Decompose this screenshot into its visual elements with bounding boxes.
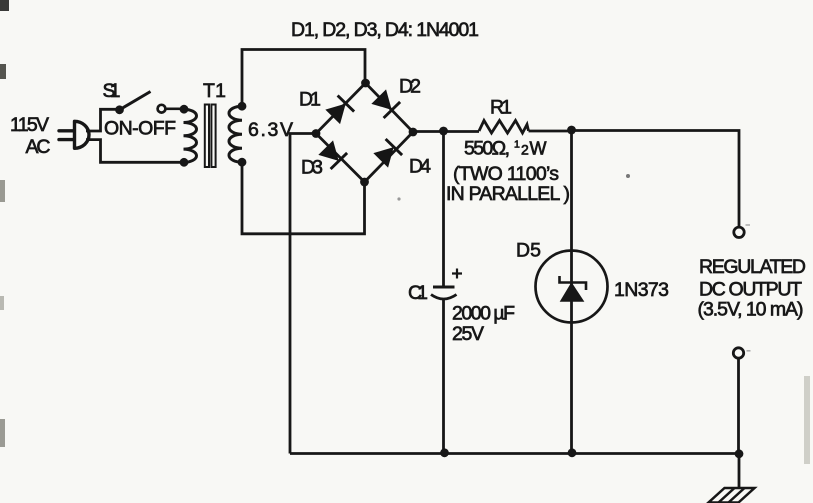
wire C1 top lead (442, 131, 445, 287)
wire bridge left node to ground rail (290, 134, 316, 454)
label R1 value 550 ohm 1/2 W, two 1100s in parallel (446, 138, 570, 206)
junction: C1 branch at R1 left (439, 127, 448, 136)
junction: D5 at ground rail (568, 448, 577, 457)
chassis ground symbol (709, 488, 755, 503)
svg-text:W: W (530, 139, 547, 159)
svg-text:S1: S1 (103, 80, 121, 102)
label regulated dc output (698, 256, 807, 321)
junction: bridge bottom node (360, 178, 369, 187)
svg-text:T1: T1 (203, 80, 226, 102)
diode D2 (372, 90, 400, 118)
AC plug (59, 121, 89, 148)
label 115V AC source (10, 114, 51, 158)
svg-text:D4: D4 (409, 156, 431, 178)
bridge diamond wiring (316, 83, 413, 182)
svg-text:C1: C1 (408, 282, 428, 304)
wire C1 bottom lead to ground rail (442, 299, 445, 454)
svg-text:D2: D2 (399, 76, 421, 98)
svg-text:2000 µF: 2000 µF (452, 303, 515, 325)
zener diode D5 (536, 251, 608, 323)
junction: D5 branch at R1 right (567, 126, 576, 135)
wire - terminal to ground rail (737, 358, 740, 454)
junction: bridge left node (312, 129, 321, 138)
svg-text:D5: D5 (516, 240, 541, 262)
wire plug top conductor to switch S1 (86, 109, 116, 131)
capacitor C1 (431, 287, 457, 299)
svg-text:D1, D2, D3, D4: 1N4001: D1, D2, D3, D4: 1N4001 (291, 19, 479, 41)
diode D3 (319, 141, 347, 169)
wire D5 branch (570, 130, 573, 454)
svg-text:6.3V: 6.3V (248, 119, 293, 141)
junction: bridge top node (361, 79, 370, 88)
switch S1 (115, 92, 181, 115)
transformer T1 (184, 105, 243, 168)
svg-text:25V: 25V (452, 323, 484, 345)
diode D1 (326, 96, 354, 124)
wire to + output terminal (572, 131, 740, 228)
svg-text:DC OUTPUT: DC OUTPUT (699, 279, 802, 301)
wire R1 to D5 branch (529, 130, 572, 133)
ground rail (290, 452, 739, 455)
wire secondary bottom to bridge bottom node (242, 162, 365, 234)
svg-text:1: 1 (514, 139, 520, 151)
svg-text:D1: D1 (299, 89, 321, 111)
junction: C1 at ground rail (440, 448, 449, 457)
resistor R1 (479, 121, 529, 134)
svg-text:ON-OFF: ON-OFF (104, 118, 176, 140)
output terminal - (733, 348, 743, 358)
svg-text:R1: R1 (490, 97, 512, 119)
svg-text:550Ω,: 550Ω, (464, 138, 510, 160)
svg-text:1N373: 1N373 (614, 279, 669, 301)
junction: output at ground rail (735, 449, 744, 458)
svg-text:AC: AC (26, 136, 51, 158)
wire bridge right node to R1 (413, 130, 479, 133)
svg-text:(TWO 1100’s: (TWO 1100’s (453, 163, 559, 185)
wire ground rail to chassis ground (738, 454, 741, 488)
svg-text:(3.5V, 10 mA): (3.5V, 10 mA) (698, 299, 804, 321)
label C1 polarity + (452, 269, 462, 279)
junction: bridge right node (409, 128, 418, 137)
label C1 value 2000 uF 25V (452, 303, 515, 346)
output terminal + (734, 227, 744, 237)
svg-text:REGULATED: REGULATED (699, 256, 806, 278)
svg-text:115V: 115V (10, 114, 49, 136)
wire plug bottom conductor to transformer primary (86, 140, 182, 163)
svg-text:IN PARALLEL ): IN PARALLEL ) (446, 183, 570, 205)
diode D4 (374, 139, 402, 167)
svg-text:2: 2 (521, 142, 529, 158)
svg-text:D3: D3 (301, 156, 323, 178)
wire secondary top to bridge top node (242, 50, 365, 107)
